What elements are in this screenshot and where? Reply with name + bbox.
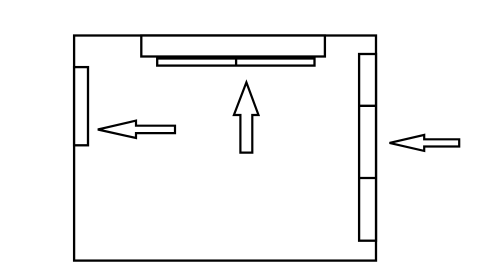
board (top large rectangle) bbox=[141, 36, 325, 57]
window divider 2 bbox=[359, 177, 376, 179]
window column (right wall) bbox=[359, 54, 376, 241]
left arrow bbox=[98, 121, 175, 138]
window divider 1 bbox=[359, 105, 376, 107]
door (left wall rectangle) bbox=[74, 67, 88, 145]
room outline bbox=[74, 36, 376, 261]
tray (thin rectangle under board) bbox=[157, 59, 314, 66]
tray divider bbox=[235, 59, 237, 66]
up arrow bbox=[234, 82, 259, 152]
right arrow bbox=[390, 135, 460, 151]
